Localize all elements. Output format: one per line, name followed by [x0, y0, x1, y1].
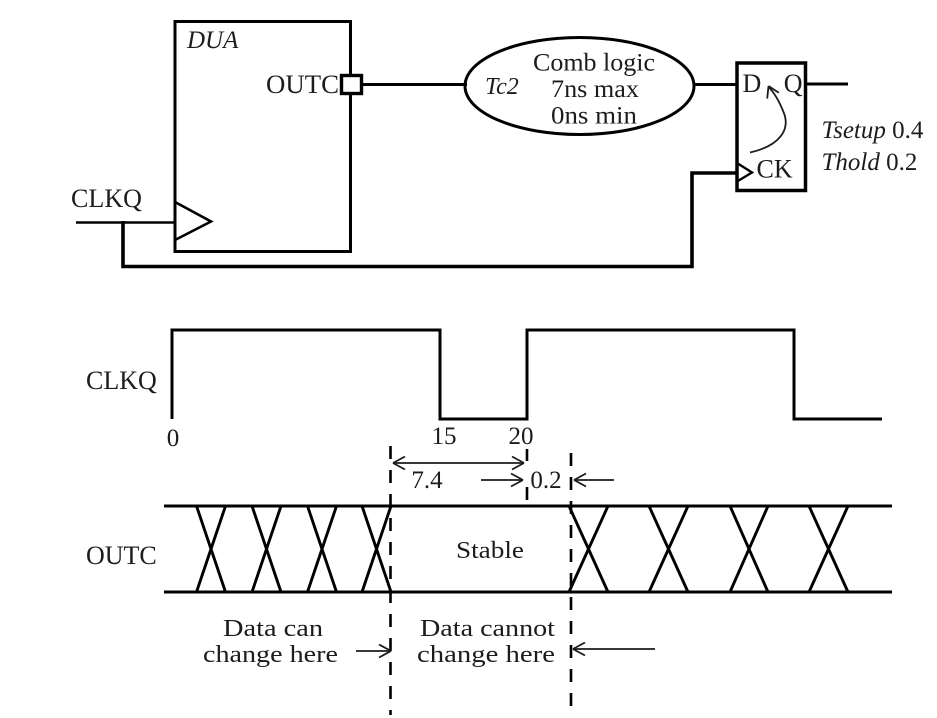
data transitions left group [197, 506, 392, 592]
svg-text:change here: change here [203, 642, 338, 668]
output port square OUTC [342, 76, 362, 94]
wire Q output [806, 83, 849, 86]
dashed marker line at hold end [570, 453, 573, 712]
svg-text:0ns min: 0ns min [551, 103, 638, 130]
wire CLKQ input [76, 221, 175, 224]
svg-text:Q: Q [784, 69, 803, 98]
svg-text:OUTC: OUTC [266, 70, 339, 99]
OUTC bus top line [164, 505, 892, 508]
svg-text:Stable: Stable [456, 538, 524, 564]
clock triangle U1 CK [737, 163, 752, 182]
svg-text:Comb logic: Comb logic [533, 50, 655, 77]
svg-text:0: 0 [167, 425, 180, 452]
svg-text:Data cannot: Data cannot [420, 616, 555, 642]
dimension arrow into 0.2 left [481, 474, 523, 487]
dimension arrow into 0.2 right [574, 474, 614, 487]
CLKQ waveform [172, 330, 882, 419]
svg-text:Tsetup 0.4: Tsetup 0.4 [822, 117, 924, 144]
wire CK feedback [123, 173, 737, 267]
svg-text:Data can: Data can [223, 616, 323, 642]
dimension arrow 7.4 [393, 457, 524, 470]
svg-text:7.4: 7.4 [411, 467, 443, 494]
arrow to right dashed line [573, 643, 655, 656]
svg-text:0.2: 0.2 [530, 467, 561, 494]
svg-text:DUA: DUA [186, 27, 239, 54]
svg-text:15: 15 [432, 423, 457, 450]
wire OUTC to comb logic [362, 83, 468, 86]
dashed marker line at clock edge 20 [526, 449, 529, 500]
svg-text:change here: change here [417, 642, 555, 668]
svg-text:7ns max: 7ns max [551, 76, 640, 103]
svg-text:D: D [743, 69, 762, 98]
curved arrow CK to D [750, 86, 786, 153]
clock triangle DUA [175, 202, 211, 240]
dashed marker line at 7.4 start [389, 446, 392, 715]
wire comb logic to D [694, 83, 737, 86]
data transitions right group [569, 506, 848, 592]
svg-text:Tc2: Tc2 [485, 74, 519, 100]
svg-text:20: 20 [509, 423, 534, 450]
svg-text:CLKQ: CLKQ [86, 366, 157, 395]
svg-text:OUTC: OUTC [86, 541, 157, 570]
OUTC bus bottom line [164, 591, 892, 594]
svg-text:CLKQ: CLKQ [71, 184, 142, 213]
block DUA [175, 22, 351, 252]
arrow to left dashed line [356, 645, 391, 658]
comb logic bubble [465, 38, 694, 135]
svg-text:CK: CK [757, 155, 793, 184]
flip-flop U1 [737, 63, 806, 191]
svg-text:Thold 0.2: Thold 0.2 [822, 149, 918, 176]
